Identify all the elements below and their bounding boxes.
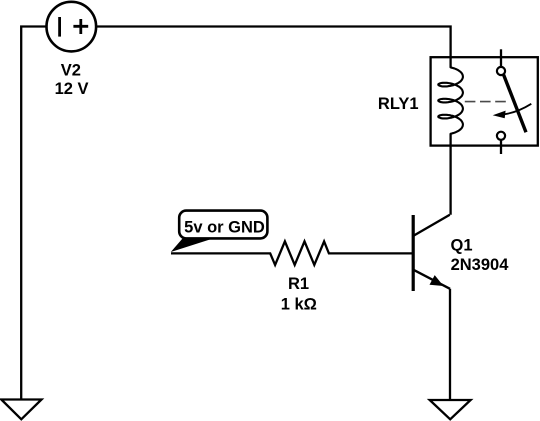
switch bottom terminal stub — [500, 140, 502, 154]
switch blade — [504, 75, 526, 133]
actuation arrowhead — [493, 111, 506, 119]
switch top contact — [497, 67, 505, 75]
input callout bubble — [171, 211, 268, 252]
switch bottom contact — [497, 132, 505, 140]
base wire with resistor R1 — [171, 241, 412, 265]
svg-text:1 kΩ: 1 kΩ — [281, 295, 317, 313]
emitter wire to ground — [449, 289, 451, 400]
ground — [1, 400, 41, 420]
svg-text:Q1: Q1 — [451, 237, 473, 255]
relay coil — [438, 67, 463, 133]
wire left loop from V2 to ground — [21, 27, 46, 400]
svg-text:RLY1: RLY1 — [378, 95, 419, 113]
switch top terminal stub — [500, 49, 502, 67]
svg-text:R1: R1 — [288, 275, 309, 293]
dashed actuation line — [465, 101, 507, 103]
relay RLY1 box — [431, 57, 538, 145]
ground — [430, 400, 471, 419]
wire relay coil to collector — [449, 134, 451, 215]
svg-text:2N3904: 2N3904 — [451, 256, 510, 274]
actuation arrow arc — [498, 104, 532, 115]
transistor Q1 — [413, 215, 450, 291]
voltage source V2 — [47, 2, 97, 52]
svg-text:5v or GND: 5v or GND — [184, 219, 265, 237]
svg-text:12 V: 12 V — [55, 80, 89, 98]
wire from V2 to relay coil — [97, 27, 451, 68]
svg-text:V2: V2 — [61, 62, 81, 80]
